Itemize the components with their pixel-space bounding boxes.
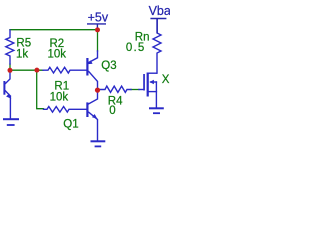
svg-text:Vbat: Vbat [149,4,170,18]
svg-text:Q1: Q1 [63,118,78,130]
svg-text:10k: 10k [50,92,69,104]
svg-text:+5v: +5v [88,10,109,24]
svg-text:X1: X1 [162,74,170,86]
svg-text:0.5: 0.5 [126,42,146,54]
svg-text:1k: 1k [16,48,28,60]
svg-text:10k: 10k [48,48,67,60]
svg-text:Q3: Q3 [101,60,116,72]
svg-text:0: 0 [109,105,115,117]
